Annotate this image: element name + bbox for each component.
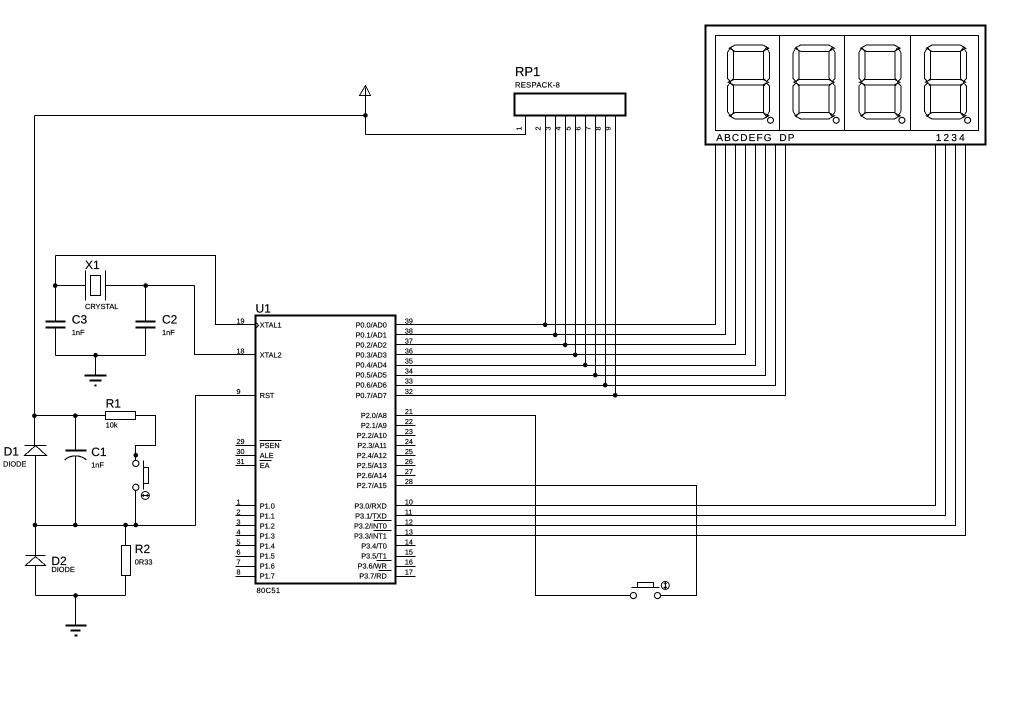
svg-text:80C51: 80C51 [257,586,281,595]
pin stub 1 [236,505,256,507]
pin stub 3 [236,525,256,527]
svg-text:XTAL2: XTAL2 [260,351,282,360]
pin stub 23 [396,435,416,437]
wire RST rail [36,525,196,527]
button SW2 bar [632,587,660,589]
wire power arrow stem [365,88,367,135]
svg-text:15: 15 [405,548,413,557]
svg-text:P0.6/AD6: P0.6/AD6 [356,381,387,390]
svg-text:1nF: 1nF [72,328,85,337]
pin stub 25 [396,455,416,457]
display cell divider 1 [779,36,781,131]
wire RP1 pin 4 drop [565,116,567,345]
diode D2 cathode bar [26,555,46,557]
pin stub 17 [396,576,416,578]
overline PSEN [260,440,282,442]
button SW2 left terminal [630,593,636,599]
svg-text:1234: 1234 [936,133,967,144]
wire top power rail [35,115,366,117]
svg-text:30: 30 [237,447,245,456]
svg-text:X1: X1 [85,258,100,272]
capacitor C1 top wire [75,416,77,451]
svg-text:P2.4/A12: P2.4/A12 [357,451,387,460]
svg-text:RP1: RP1 [515,64,540,79]
pin stub 30 [236,455,256,457]
wire RP1 pin 9 drop [615,116,617,396]
button SW2 actuator symbol [661,581,669,589]
svg-text:7: 7 [584,127,593,131]
svg-text:35: 35 [405,357,413,366]
svg-text:31: 31 [237,457,245,466]
node rail-button junction [134,523,139,528]
svg-text:10: 10 [405,497,413,506]
node P0.6 bus junction [603,383,608,388]
wire crystal ground rail [56,355,146,357]
pin stub 29 [236,445,256,447]
wire C2 bottom [145,328,147,356]
pin stub 5 [236,545,256,547]
svg-text:33: 33 [405,377,413,386]
svg-text:34: 34 [405,367,413,376]
svg-text:C2: C2 [162,313,178,327]
node crystal right junction [143,283,148,288]
pin stub 31 [236,465,256,467]
svg-text:8: 8 [594,127,603,131]
wire RP1 pin 8 drop [605,116,607,386]
wire dot to button circle [135,456,137,461]
pin stub 4 [236,535,256,537]
wire crystal right lead [106,285,195,287]
wire button to rail [135,491,137,526]
display inner box [716,36,979,131]
pin stub 2 [236,515,256,517]
wire RP1 pin 7 drop [595,116,597,376]
svg-text:23: 23 [405,427,413,436]
display digit 1 (7-segment 8 with DP) [728,45,774,123]
clock chevron XTAL1 [256,322,259,329]
wire C1 bottom [75,456,77,526]
mcu U1 body (80C51) [256,316,396,584]
svg-text:29: 29 [237,437,245,446]
svg-text:7: 7 [237,558,241,567]
pin stub 24 [396,445,416,447]
svg-text:DIODE: DIODE [3,459,26,468]
wire P0.4 to segment pin E [396,145,756,366]
button SW2 right terminal [654,593,660,599]
wire R2 bottom [125,576,127,596]
svg-text:2: 2 [534,127,543,131]
svg-text:4: 4 [554,127,563,131]
svg-text:P3.2/INT0: P3.2/INT0 [354,521,387,530]
svg-text:P1.6: P1.6 [260,562,275,571]
button SW1 top terminal [133,460,139,466]
svg-text:P0.7/AD7: P0.7/AD7 [356,391,387,400]
svg-text:32: 32 [405,387,413,396]
svg-text:PSEN: PSEN [260,441,280,450]
wire P3.3 to display digit pin 4 [396,145,966,536]
svg-text:P1.5: P1.5 [260,552,275,561]
svg-text:P3.3/INT1: P3.3/INT1 [354,532,387,541]
wire P0.1 to segment pin B [396,145,726,335]
overline RD [379,570,392,572]
svg-text:P2.5/A13: P2.5/A13 [357,461,387,470]
svg-text:ABCDEFG: ABCDEFG [716,133,772,144]
svg-text:DP: DP [779,133,795,144]
svg-text:0R33: 0R33 [135,558,153,567]
svg-text:8: 8 [237,568,241,577]
node P0.3 bus junction [573,353,578,358]
svg-text:1nF: 1nF [162,328,175,337]
wire RP1 pin 3 drop [555,116,557,335]
svg-text:RST: RST [260,391,275,400]
wire P0.0 to segment pin A [396,145,716,325]
svg-text:22: 22 [405,417,413,426]
pin stub 6 [236,556,256,558]
display digit 3 (7-segment 8 with DP) [859,45,905,123]
svg-text:P0.1/AD1: P0.1/AD1 [356,331,387,340]
node P0.1 bus junction [553,333,558,338]
pin stub 26 [396,465,416,467]
resistor R2 body [122,546,131,576]
crystal X1 right plate [105,271,107,301]
svg-text:24: 24 [405,437,413,446]
ground symbol (bottom) [75,596,77,626]
svg-text:R1: R1 [106,397,122,411]
svg-text:1: 1 [237,497,241,506]
diode D2 top wire [35,526,37,556]
svg-text:28: 28 [405,477,413,486]
svg-text:P0.2/AD2: P0.2/AD2 [356,341,387,350]
crystal X1 body [91,276,101,296]
pin stub 16 [396,566,416,568]
svg-text:P3.4/T0: P3.4/T0 [361,542,387,551]
svg-text:P0.0/AD0: P0.0/AD0 [356,320,387,329]
svg-text:RESPACK-8: RESPACK-8 [515,81,560,90]
svg-text:27: 27 [405,467,413,476]
svg-text:17: 17 [405,568,413,577]
node crystal ground junction [93,353,98,358]
wire P3.0 to display digit pin 1 [396,145,936,506]
display digit 4 (7-segment 8 with DP) [925,45,971,123]
svg-text:P0.3/AD3: P0.3/AD3 [356,351,387,360]
svg-text:P0.4/AD4: P0.4/AD4 [356,361,387,370]
node rail-D1 junction [32,413,37,418]
svg-text:R2: R2 [135,542,151,556]
svg-text:5: 5 [564,127,573,131]
pin stub 8 [236,576,256,578]
svg-text:P2.1/A9: P2.1/A9 [361,421,387,430]
wire RP1 pin 6 drop [585,116,587,366]
diode D1 top wire [34,416,36,446]
wire P0.2 to segment pin C [396,145,736,345]
diode D2 triangle [26,557,46,566]
wire P0.3 to segment pin D [396,145,746,355]
svg-text:1: 1 [515,127,524,131]
svg-text:P1.0: P1.0 [260,501,275,510]
capacitor C3 plates [46,321,66,323]
wire XTAL1 net [56,256,256,325]
diode D1 cathode bar [25,445,47,447]
svg-text:P2.3/A11: P2.3/A11 [357,441,386,450]
wire crystal left lead [56,285,86,287]
svg-text:ALE: ALE [260,451,274,460]
node rail-R2 junction [123,523,128,528]
svg-text:P1.3: P1.3 [260,532,275,541]
wire crystal loop left [55,256,57,322]
svg-text:D1: D1 [4,444,20,458]
display cell divider 2 [844,36,846,131]
wire left power rail vertical [34,116,36,416]
pin stub 14 [396,545,416,547]
wire P2.0 to button [396,416,631,596]
overline WR [377,560,392,562]
button SW1 actuator symbol [141,492,149,500]
svg-text:P2.6/A14: P2.6/A14 [357,471,387,480]
svg-text:P1.7: P1.7 [260,572,275,581]
wire P0.6 to segment pin G [396,145,776,386]
svg-text:25: 25 [405,447,413,456]
wire P0.5 to segment pin F [396,145,766,376]
node P0.5 bus junction [593,373,598,378]
svg-text:16: 16 [405,558,413,567]
display DS1 outer box [706,26,986,145]
wire D1 bottom [35,456,37,526]
crystal X1 left plate [85,271,87,301]
svg-text:P3.0/RXD: P3.0/RXD [354,501,386,510]
resistor R1 body [106,412,136,420]
svg-text:10k: 10k [106,420,118,429]
display cell divider 3 [910,36,912,131]
diode D1 triangle [25,446,47,456]
wire XTAL2 net [195,286,256,355]
wire RST to U1 [196,396,256,526]
svg-text:P0.5/AD5: P0.5/AD5 [356,371,387,380]
svg-text:P1.2: P1.2 [260,521,275,530]
overline INT1 [374,530,392,532]
wire RP1 pin 5 drop [575,116,577,355]
capacitor C1 curved plate [65,456,87,460]
node P0.7 bus junction [613,393,618,398]
ground symbol (crystal) [95,356,97,376]
svg-text:3: 3 [544,127,553,131]
svg-text:XTAL1: XTAL1 [260,320,282,329]
pin stub 22 [396,425,416,427]
capacitor C1 top plate [66,450,87,452]
svg-text:C1: C1 [91,445,107,459]
capacitor C2 plates [136,321,156,323]
svg-text:9: 9 [237,387,241,396]
svg-text:6: 6 [574,127,583,131]
wire power to RP1 pin1 [366,116,526,135]
wire P3.2 to display digit pin 3 [396,145,956,526]
svg-text:P2.2/A10: P2.2/A10 [357,431,387,440]
display digit 2 (7-segment 8 with DP) [793,45,839,123]
button SW1 cap [144,468,149,484]
wire D2 bottom [35,566,37,596]
wire C3 bottom [55,328,57,356]
node crystal left junction [53,283,58,288]
svg-text:1nF: 1nF [91,461,104,470]
svg-text:P3.6/WR: P3.6/WR [358,562,387,571]
node rail-C1 junction [73,413,78,418]
svg-text:P3.1/TXD: P3.1/TXD [355,511,387,520]
svg-text:26: 26 [405,457,413,466]
svg-text:P2.0/A8: P2.0/A8 [361,411,387,420]
button SW1 bottom terminal [133,484,139,490]
node P0.4 bus junction [583,363,588,368]
svg-text:EA: EA [260,461,270,470]
wire ground rail bottom [36,595,126,597]
svg-text:C3: C3 [72,313,88,327]
svg-text:P3.7/RD: P3.7/RD [359,572,387,581]
power arrow VCC [360,86,371,96]
wire RP1 pin 2 drop [545,116,547,325]
node rail-D2 junction [33,523,38,528]
svg-text:CRYSTAL: CRYSTAL [85,302,118,311]
button SW1 bar [143,461,145,490]
svg-text:P3.5/T1: P3.5/T1 [361,552,387,561]
resistor pack RP1 body [515,94,626,116]
node P0.2 bus junction [563,343,568,348]
svg-text:P2.7/A15: P2.7/A15 [357,481,387,490]
node P0.0 bus junction [543,323,548,328]
capacitor C3 top wire [55,286,57,322]
button SW2 cap [638,583,654,588]
svg-text:U1: U1 [256,302,272,316]
node rail-C1 bottom junction [73,523,78,528]
wire R1 to button [136,416,156,456]
node power rail junction [363,113,368,118]
svg-text:DIODE: DIODE [51,565,74,574]
capacitor C2 top wire [145,286,147,322]
svg-text:9: 9 [604,127,613,131]
pin stub 15 [396,556,416,558]
overline EA [260,460,272,462]
node button top terminal [134,453,139,458]
svg-text:P1.1: P1.1 [260,511,275,520]
svg-text:21: 21 [405,407,413,416]
wire VCC rail to R1 [35,415,106,417]
wire P3.1 to display digit pin 2 [396,145,946,516]
overline INT0 [374,520,392,522]
svg-text:6: 6 [237,548,241,557]
pin stub 27 [396,475,416,477]
wire P0.7 to segment pin DP [396,145,786,396]
node ground rail junction [73,593,78,598]
wire P2.7 to button [396,486,697,596]
svg-text:P1.4: P1.4 [260,542,275,551]
resistor R2 top wire [125,526,127,546]
pin stub 7 [236,566,256,568]
